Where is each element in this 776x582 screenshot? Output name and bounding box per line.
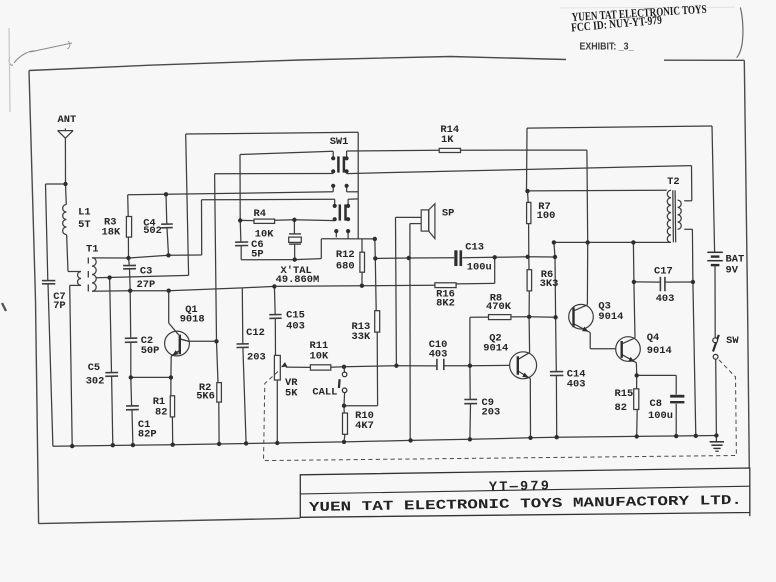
svg-text:403: 403 (429, 349, 448, 361)
svg-text:9014: 9014 (483, 342, 508, 354)
svg-text:9014: 9014 (598, 311, 623, 323)
svg-text:8K2: 8K2 (436, 297, 455, 309)
svg-text:203: 203 (482, 407, 501, 419)
svg-text:4K7: 4K7 (355, 420, 374, 432)
svg-text:82P: 82P (138, 429, 157, 441)
svg-text:9V: 9V (726, 264, 739, 276)
svg-text:C17: C17 (654, 266, 673, 278)
svg-text:502: 502 (143, 225, 162, 237)
svg-text:T2: T2 (667, 176, 679, 188)
svg-text:SP: SP (442, 208, 454, 220)
svg-text:50P: 50P (141, 345, 160, 357)
svg-text:CALL: CALL (312, 387, 337, 399)
svg-text:403: 403 (656, 293, 675, 305)
svg-text:680: 680 (336, 261, 355, 273)
svg-text:203: 203 (247, 352, 266, 364)
svg-text:403: 403 (567, 379, 586, 391)
svg-text:ANT: ANT (58, 114, 77, 126)
svg-text:SW: SW (726, 335, 739, 347)
svg-text:C8: C8 (650, 398, 662, 410)
svg-text:C13: C13 (465, 241, 484, 253)
svg-text:10K: 10K (310, 351, 329, 363)
svg-text:100u: 100u (467, 261, 492, 273)
svg-text:5K: 5K (285, 388, 298, 400)
svg-text:33K: 33K (352, 331, 371, 343)
svg-text:YT—979: YT—979 (489, 479, 551, 495)
svg-text:R4: R4 (254, 208, 266, 220)
svg-text:82: 82 (155, 407, 167, 419)
svg-text:5K6: 5K6 (196, 391, 215, 403)
svg-text:3K3: 3K3 (540, 278, 559, 290)
svg-text:C3: C3 (140, 265, 152, 277)
svg-text:403: 403 (286, 321, 305, 333)
svg-text:5T: 5T (78, 219, 90, 231)
svg-text:5P: 5P (251, 248, 263, 260)
svg-text:1K: 1K (441, 134, 454, 146)
svg-text:18K: 18K (102, 226, 121, 238)
svg-text:82: 82 (615, 402, 627, 414)
svg-text:L1: L1 (78, 207, 90, 219)
svg-text:100u: 100u (648, 410, 673, 422)
svg-text:9014: 9014 (647, 345, 672, 357)
svg-text:EXHIBIT: _3_: EXHIBIT: _3_ (580, 41, 634, 53)
svg-text:7P: 7P (53, 300, 65, 312)
svg-text:R12: R12 (336, 249, 355, 261)
svg-text:C5: C5 (88, 362, 100, 374)
svg-text:302: 302 (86, 375, 105, 387)
svg-text:Q4: Q4 (647, 332, 659, 344)
svg-text:49.860M: 49.860M (276, 274, 320, 286)
svg-text:9018: 9018 (180, 313, 205, 325)
svg-text:SW1: SW1 (330, 136, 349, 148)
svg-text:C12: C12 (246, 327, 265, 339)
svg-text:T1: T1 (86, 243, 98, 255)
svg-text:470K: 470K (486, 301, 512, 313)
svg-text:27P: 27P (137, 279, 156, 291)
svg-text:R15: R15 (615, 388, 634, 400)
svg-text:100: 100 (537, 210, 556, 222)
